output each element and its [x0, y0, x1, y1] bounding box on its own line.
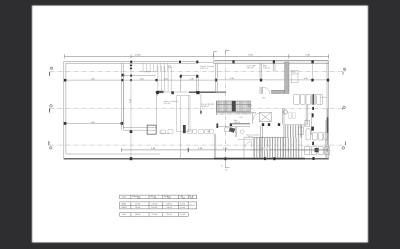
svg-text:8.02 m2: 8.02 m2: [152, 207, 158, 209]
svg-text:1 MEZZ: 1 MEZZ: [121, 207, 127, 209]
interior line y=75.6 with columns: [123, 75, 198, 77]
svg-text:5.35 m2: 5.35 m2: [164, 103, 171, 105]
interior line y=123.4 left bay: [65, 122, 123, 124]
columns on top wall: [130, 60, 314, 63]
toilet room box: [291, 70, 298, 83]
wall stub x=252.7: [252, 113, 254, 124]
vertical wall x=180.7: [180, 76, 182, 92]
grid bubble C right: [343, 106, 346, 110]
interior wall x=200.9: [200, 94, 202, 115]
mid stair strip: [216, 101, 250, 112]
svg-text:212 m2: 212 m2: [167, 214, 172, 216]
svg-text:103 m2: 103 m2: [167, 207, 172, 209]
svg-text:117 m2: 117 m2: [135, 203, 140, 205]
bottom wall (thick): [64, 158, 214, 160]
section flag at 213.6: [214, 52, 217, 57]
grid bubble D right: [343, 68, 346, 75]
vertical dim right x=327.6: [327, 108, 329, 145]
total row: [120, 213, 189, 217]
right building: wall x=215.6-217: [214, 63, 217, 158]
svg-text:3.85 m2: 3.85 m2: [247, 68, 254, 70]
bath zone walls: [217, 127, 288, 158]
kitchen appliances: [298, 120, 328, 140]
box right edge: [156, 92, 158, 127]
svg-text:14.88 m2: 14.88 m2: [201, 106, 209, 108]
stair newel circle: [168, 65, 170, 67]
table text: [121, 195, 195, 216]
centerline C: [50, 107, 346, 109]
thin terrace top edge: [198, 61, 213, 63]
area table: [120, 195, 197, 216]
svg-text:UP 16R: UP 16R: [145, 71, 151, 73]
svg-text:(m2): (m2): [190, 198, 194, 200]
grid bubble B left: [49, 141, 52, 149]
top stair (upper flight): [140, 63, 167, 71]
stair mid dark pier: [232, 101, 236, 112]
svg-text:24.38: 24.38: [135, 54, 141, 56]
wall x=312.4 upper: [311, 63, 313, 79]
svg-text:4.6 m2: 4.6 m2: [180, 207, 185, 209]
grid bubble D left: [50, 67, 53, 76]
stair ref circle: [249, 104, 252, 107]
top wall left block (double): [64, 60, 199, 62]
svg-text:GRND: GRND: [121, 203, 127, 205]
inner box (left building): [123, 75, 156, 130]
svg-text:109 m2: 109 m2: [167, 203, 172, 205]
kitchen counter row (left building bottom): [160, 130, 213, 134]
wall x=282.3-284: [282, 108, 284, 124]
left wall (double): [63, 61, 65, 159]
light marks above teeth: [288, 113, 291, 119]
bottom wall inner face: [66, 153, 160, 155]
door arc terrace: [246, 141, 252, 147]
door arc at shaft: [253, 113, 259, 119]
right building top wall (thick): [214, 61, 329, 64]
svg-text:Floor: Floor: [123, 197, 127, 199]
svg-text:236 m2: 236 m2: [135, 214, 140, 216]
wall x=273-275 upper: [273, 63, 275, 71]
svg-text:(m2): (m2): [153, 198, 157, 200]
deck teeth vertical strip: [285, 125, 301, 137]
gray jog wall at 215-226: [216, 91, 227, 93]
svg-text:1.05: 1.05: [207, 131, 211, 133]
grid 2 bottom label: [225, 161, 229, 168]
interior dim line y=80.1 left with labels: [65, 79, 328, 81]
svg-text:119 m2: 119 m2: [135, 207, 140, 209]
interior vertical wall x=122.4: [121, 63, 123, 130]
centerline B: [50, 144, 346, 146]
bedroom wall pair x=259.9-262: [260, 63, 262, 94]
centerline D: [50, 71, 346, 73]
stair lower flight (vertical stringers): [158, 66, 172, 91]
columns kitchen: [312, 107, 315, 160]
wall left of stair: [216, 101, 218, 115]
kitchen counter squares row: [305, 147, 330, 155]
grid bubble B right: [342, 142, 346, 150]
svg-text:7.46 m2: 7.46 m2: [263, 68, 270, 70]
svg-text:7.41 m2: 7.41 m2: [152, 203, 158, 205]
G bubble: [283, 110, 287, 114]
landing line: [237, 112, 256, 114]
door jamb right room: [320, 95, 327, 105]
gray L wall right building: [285, 62, 289, 94]
small square column box: [147, 125, 156, 134]
dark wall stub x=183-186: [183, 125, 186, 133]
vertical grid 2: [225, 52, 227, 161]
bottom wall columns: [225, 157, 276, 160]
grid bubbles and centerlines: [50, 52, 346, 161]
bath fixtures: [225, 128, 244, 134]
top dimension line: [65, 54, 329, 58]
svg-text:4.6 m2: 4.6 m2: [180, 203, 185, 205]
teeth band below stair: [216, 112, 256, 115]
wardrobe row: [294, 94, 323, 104]
kitchen right walls: [298, 105, 326, 158]
svg-text:W2: W2: [263, 97, 266, 99]
interior vertical grid x=131: [130, 63, 132, 158]
svg-text:15.4 m2: 15.4 m2: [152, 214, 158, 216]
small closet rect: [177, 96, 191, 132]
wall pair in teeth: [260, 126, 262, 158]
grid 2 top flag: [226, 50, 230, 53]
svg-text:9.2 m2: 9.2 m2: [180, 214, 185, 216]
right building right wall: [327, 61, 329, 158]
left building outer walls: [64, 61, 214, 159]
svg-text:1.40 m2: 1.40 m2: [292, 73, 299, 75]
body rows: [120, 202, 197, 209]
svg-text:28 m2: 28 m2: [248, 137, 253, 139]
bottom interior dimension line: [121, 148, 327, 153]
svg-text:(m2): (m2): [137, 198, 141, 200]
svg-text:1.40 m2: 1.40 m2: [234, 122, 241, 124]
header row: [120, 195, 197, 199]
deck teeth horizontal strip: [254, 138, 299, 158]
svg-text:246 m2: 246 m2: [189, 205, 194, 207]
svg-text:1.05: 1.05: [239, 117, 243, 119]
svg-text:(m2): (m2): [182, 198, 186, 200]
columns row y=124.5: [230, 123, 280, 126]
bottom dim line over teeth: [250, 148, 328, 151]
svg-text:(m2): (m2): [168, 198, 172, 200]
thick front wall y=92 (x 189-217): [189, 91, 217, 93]
door arc bedroom: [263, 87, 270, 94]
vertical wall pair x=196.3/198.2: [196, 76, 198, 92]
svg-text:11.87 m2: 11.87 m2: [200, 68, 208, 70]
shaft box with X: [260, 112, 272, 121]
grid bubble C left: [50, 105, 53, 113]
wall corner below stair: [156, 91, 164, 93]
